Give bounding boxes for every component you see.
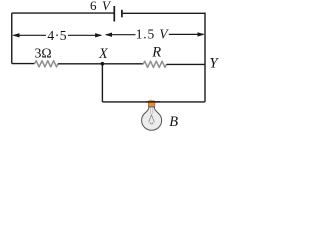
battery cell 6V: long plate [113, 6, 115, 22]
svg-text:1.5 V: 1.5 V [136, 27, 170, 42]
svg-text:B: B [169, 114, 178, 130]
dimension arrow 4.5 right segment [68, 34, 101, 36]
svg-text:R: R [151, 45, 161, 61]
resistor R zigzag [143, 61, 167, 67]
svg-text:X: X [98, 46, 109, 62]
middle wire: left corner to 3-ohm resistor [12, 63, 35, 65]
dimension arrow 1.5V right segment [169, 33, 204, 35]
middle wire: R to right wire [167, 63, 206, 65]
bulb B: glass envelope [142, 107, 162, 130]
wire top-right from battery to top-right corner [122, 12, 205, 14]
bottom wire [102, 101, 205, 103]
resistor 3-ohm zigzag [35, 61, 59, 67]
dimension arrow 4.5 left segment [14, 34, 47, 36]
inner vertical wire X down to bottom [101, 64, 103, 102]
bulb B: screw cap [150, 99, 154, 101]
svg-text:3Ω: 3Ω [35, 46, 52, 61]
dimension arrow 1.5V left segment [106, 34, 136, 36]
node X junction dot [101, 62, 105, 66]
battery cell 6V: short plate [121, 10, 123, 17]
middle wire: 3-ohm to R resistor (through node X) [58, 63, 143, 65]
wire right side vertical [204, 13, 206, 102]
bulb filament [150, 108, 152, 114]
wire over bulb cap [146, 101, 160, 103]
wire top-left from left corner to battery [12, 12, 115, 14]
svg-text:4·5: 4·5 [47, 28, 67, 43]
wire left side vertical [11, 13, 13, 64]
